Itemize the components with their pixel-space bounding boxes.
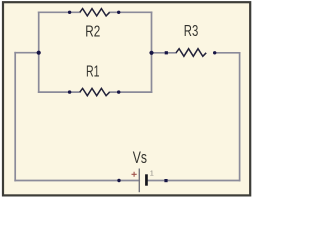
- wire: top branch left segment: [39, 11, 80, 13]
- svg-text:Vs: Vs: [133, 149, 147, 167]
- R1 left terminal dot: [68, 90, 71, 93]
- wire: node A to outer left loop: [15, 52, 39, 54]
- wire: left outer vertical: [14, 53, 16, 181]
- wire: parallel block right vertical: [151, 12, 153, 92]
- R3 left terminal dot: [165, 51, 168, 54]
- battery left terminal dot: [117, 179, 120, 182]
- R2 left terminal dot: [68, 11, 71, 14]
- resistor R1 zigzag: [80, 88, 110, 95]
- resistor R2 zigzag: [80, 9, 110, 16]
- node A junction dot (left): [37, 51, 41, 55]
- wire: right outer vertical: [239, 53, 241, 181]
- svg-text:R2: R2: [85, 24, 100, 41]
- svg-text:R1: R1: [86, 64, 100, 81]
- wire: bottom branch right segment: [110, 91, 152, 93]
- wire: top branch right segment: [110, 11, 152, 13]
- svg-text:1: 1: [150, 168, 154, 177]
- svg-text:R3: R3: [184, 23, 199, 40]
- wire: bottom branch left segment: [39, 91, 80, 93]
- battery right terminal dot: [164, 179, 167, 182]
- wire: bottom run to battery positive plate: [15, 180, 139, 182]
- R1 right terminal dot: [117, 90, 120, 93]
- wire: node B to R3 left terminal: [152, 52, 177, 54]
- R2 right terminal dot: [117, 11, 120, 14]
- battery Vs: positive long plate: [138, 169, 140, 193]
- resistor R3 zigzag: [176, 49, 206, 57]
- R3 right terminal dot: [213, 51, 216, 54]
- wire: parallel block left vertical: [38, 12, 40, 92]
- battery plus sign: [132, 172, 137, 177]
- schematic frame: [3, 2, 250, 195]
- wire: battery negative plate to bottom right corner: [146, 180, 239, 182]
- battery Vs: negative short thick plate: [145, 174, 148, 185]
- wire: R3 row right segment: [215, 52, 240, 54]
- node B junction dot (right): [149, 51, 153, 55]
